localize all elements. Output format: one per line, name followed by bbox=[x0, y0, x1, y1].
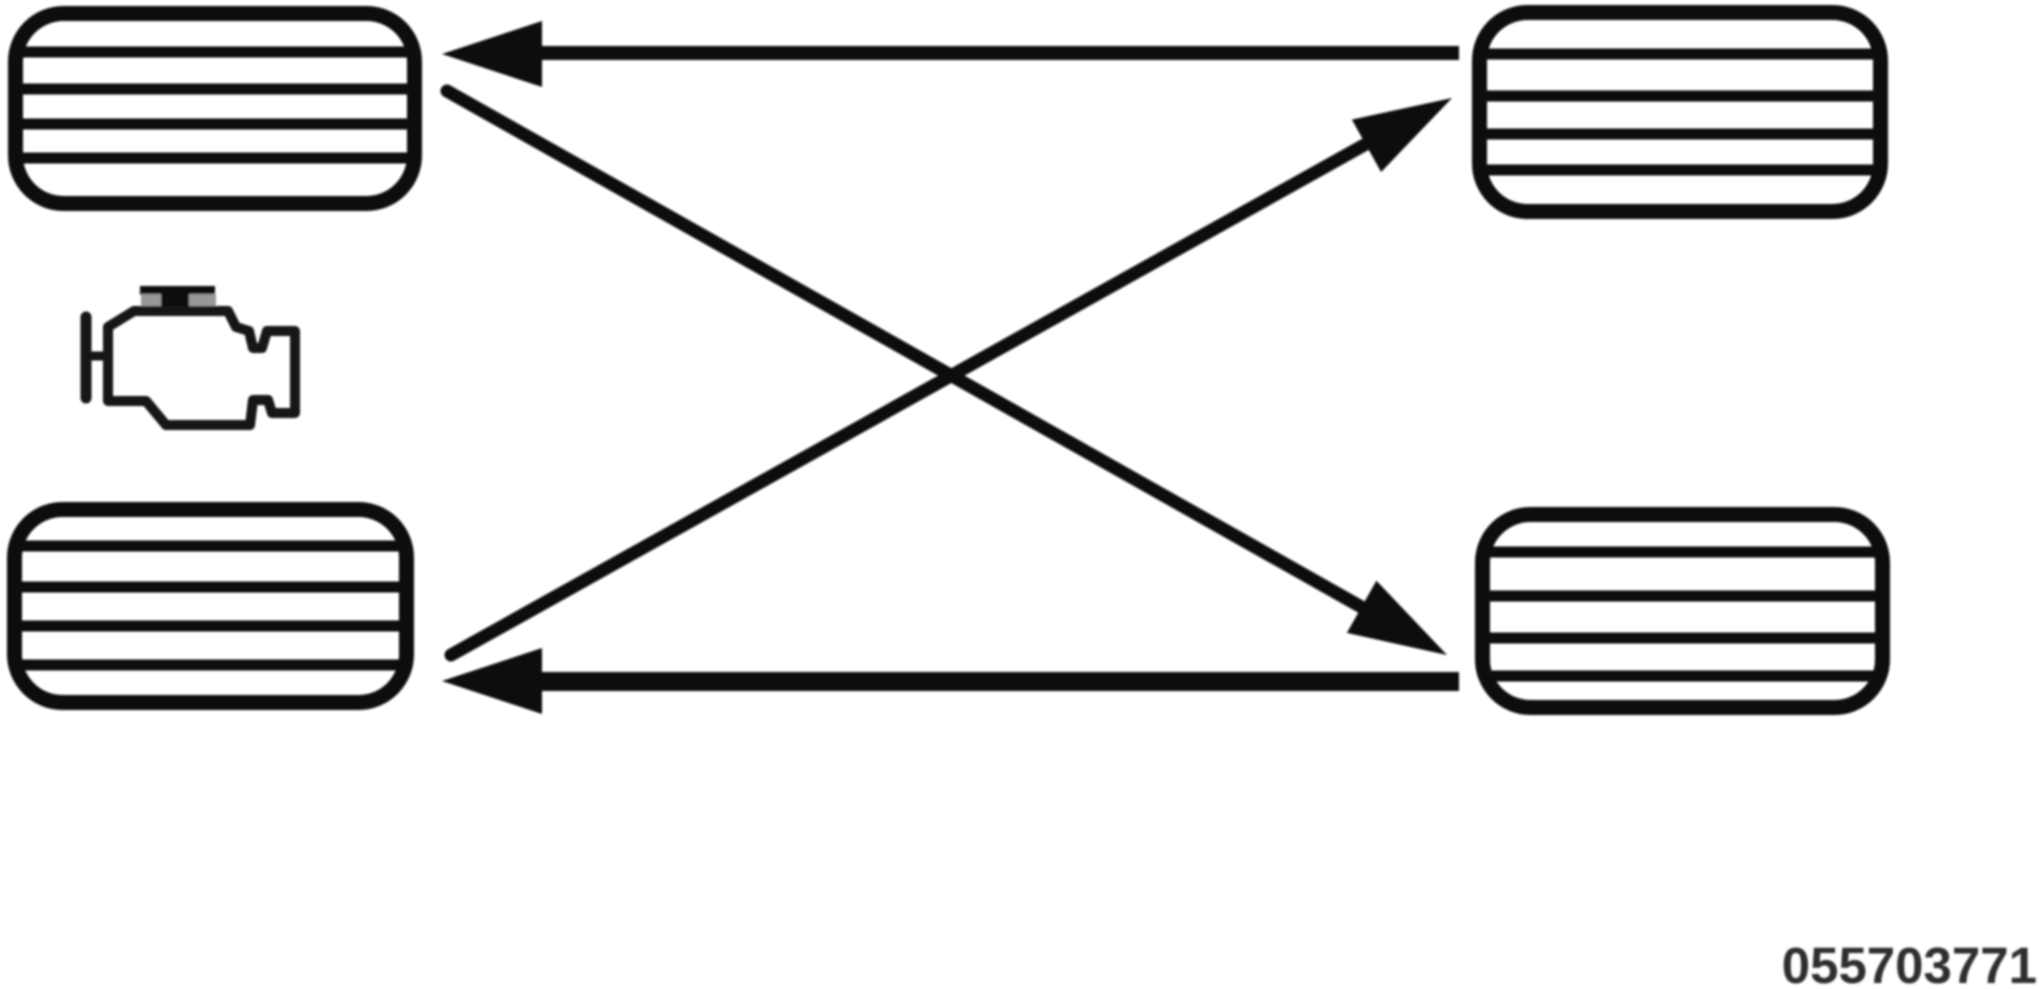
arrow diagonal front-left to rear-right bbox=[447, 91, 1447, 655]
tire front-left bbox=[16, 14, 415, 204]
arrow bottom (right-rear to left-rear) bbox=[442, 648, 1459, 714]
tire front-right bbox=[1480, 13, 1881, 212]
tire rear-left bbox=[15, 510, 407, 703]
arrow diagonal rear-left to front-right bbox=[451, 98, 1452, 655]
engine icon bbox=[86, 286, 295, 425]
svg-text:055703771: 055703771 bbox=[1782, 937, 2037, 989]
arrow top (right-front to left-front) bbox=[442, 21, 1459, 87]
tire rear-right bbox=[1483, 515, 1883, 708]
